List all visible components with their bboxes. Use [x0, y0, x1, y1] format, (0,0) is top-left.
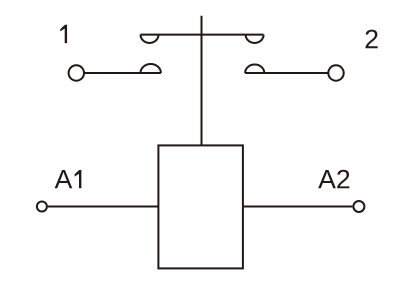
terminal circle A1 [37, 202, 47, 212]
fixed contact right (dome arc) [245, 65, 264, 73]
wire terminal 1 to fixed contact [85, 72, 161, 74]
wire fixed contact to terminal 2 [245, 72, 328, 74]
terminal circle 1 [69, 65, 84, 80]
label 1 (contact terminal 1) [60, 25, 67, 43]
moving contact left (cup arc) [141, 35, 159, 43]
wire moving bridge crossbar [141, 34, 264, 36]
wire A1 to coil [48, 206, 158, 208]
label A1 (coil terminal) [55, 170, 82, 188]
fixed contact left (dome arc) [141, 64, 161, 73]
coil K1 (operating coil rectangle) [158, 145, 243, 268]
wire coil to A2 [243, 206, 353, 208]
label 2 (contact terminal 2) [366, 30, 378, 49]
label A2 (coil terminal) [318, 170, 349, 189]
terminal circle A2 [353, 201, 364, 212]
moving contact right (cup arc) [246, 35, 264, 43]
terminal circle 2 [328, 65, 343, 80]
wire actuator shaft [201, 16, 203, 146]
